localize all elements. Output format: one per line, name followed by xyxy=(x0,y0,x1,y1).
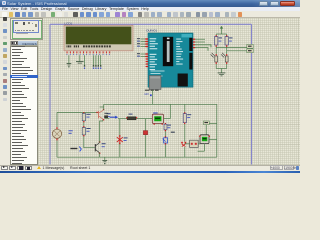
svg-text:12V: 12V xyxy=(144,92,149,96)
svg-text:LCD1: LCD1 xyxy=(65,21,73,25)
svg-text:DUINO1: DUINO1 xyxy=(147,28,158,32)
